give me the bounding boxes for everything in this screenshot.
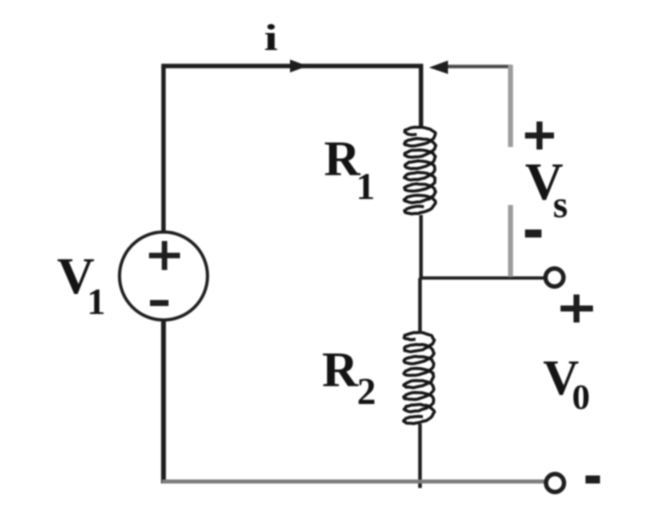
svg-text:R: R bbox=[322, 341, 359, 397]
svg-text:s: s bbox=[553, 184, 568, 226]
resistor R2 bbox=[404, 332, 435, 423]
resistor R1 bbox=[404, 127, 436, 214]
terminal circle top (+) bbox=[546, 269, 564, 287]
plus inside V1 bbox=[149, 241, 180, 270]
terminal circle bottom (-) bbox=[546, 474, 564, 492]
svg-text:0: 0 bbox=[572, 377, 590, 417]
svg-text:1: 1 bbox=[87, 282, 106, 323]
plus Vs bbox=[525, 122, 554, 150]
svg-text:1: 1 bbox=[356, 166, 375, 208]
bottom rail (gray) bbox=[162, 480, 545, 484]
current arrow on top wire bbox=[290, 60, 308, 73]
plus V0 bbox=[561, 295, 594, 323]
middle wire to + terminal bbox=[421, 276, 545, 279]
voltage source V1 bbox=[120, 232, 208, 320]
wire: R2 bottom to bottom rail bbox=[418, 424, 422, 488]
svg-text:i: i bbox=[264, 17, 278, 58]
wire: V1 bottom to bottom rail bbox=[161, 320, 166, 484]
Vs bracket horizontal bbox=[447, 65, 511, 68]
minus bottom bbox=[586, 476, 601, 484]
wire: R1 bottom to middle node bbox=[419, 215, 423, 278]
Vs arrow pointing left bbox=[429, 61, 448, 75]
minus inside V1 bbox=[150, 300, 169, 306]
svg-text:2: 2 bbox=[357, 371, 376, 413]
minus Vs bbox=[525, 230, 542, 238]
wire: left vertical + top horizontal + right vertical to R1 bbox=[164, 66, 422, 233]
Vs bracket vertical top segment bbox=[508, 65, 513, 147]
Vs bracket vertical bottom segment bbox=[508, 205, 513, 277]
wire: mid node to R2 top bbox=[418, 278, 422, 334]
